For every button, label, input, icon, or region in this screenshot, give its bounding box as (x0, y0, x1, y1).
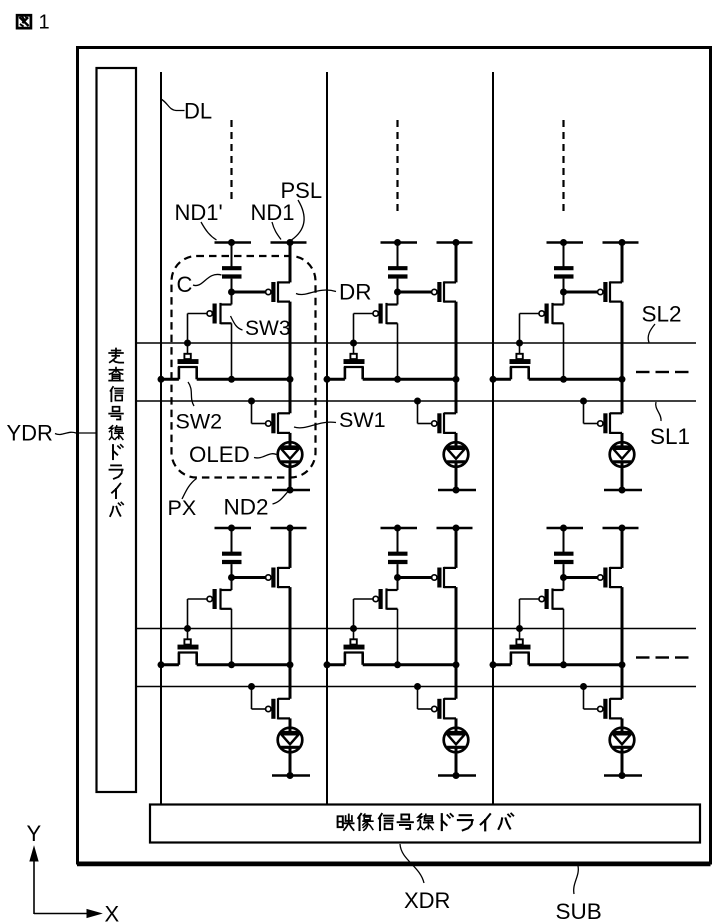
junction on ND1' (pixel r2c1) (228, 525, 235, 532)
wire OLED to ND2 (pixel r1c3) (621, 462, 624, 490)
transistor SW3 (pixel r2c1) (207, 596, 212, 601)
transistor DR (pixel r1c1) (266, 289, 271, 294)
svg-text:PX: PX (168, 496, 197, 520)
wire gate node to SW3 top (pixel r1c2) (397, 292, 399, 305)
transistor SW2 (pixel r2c3) (516, 639, 522, 644)
row continuation dashes right row2 (636, 656, 650, 658)
label SUB (574, 866, 579, 894)
svg-text:DR: DR (339, 280, 372, 305)
junction wire/ND1 column (pixel r2c2) (453, 661, 460, 668)
label ND1' (201, 222, 217, 240)
wire SW1 gate to SL1 (pixel r2c3) (583, 687, 585, 710)
transistor DR (pixel r1c2) (432, 289, 437, 294)
junction on ND1 (pixel r2c1) (287, 525, 294, 532)
junction on ND2 (pixel r1c1) (287, 487, 294, 494)
wire gate node to SW3 top (pixel r2c1) (231, 578, 233, 591)
junction on ND1 (pixel r1c1) (287, 239, 294, 246)
node ND1 terminal bar (pixel r2c2) (437, 527, 473, 530)
label SL1 (656, 402, 661, 421)
svg-text:1: 1 (39, 12, 50, 34)
junction wire/SW3 column (pixel r2c1) (228, 661, 235, 668)
wire ND1' to capacitor (pixel r2c1) (231, 528, 233, 554)
transistor SW2 (pixel r1c1) (184, 354, 190, 359)
pixel boundary PX dashed box (172, 256, 316, 478)
wire SW3 gate to SL2 (pixel r2c2) (354, 598, 374, 600)
junction SW3/SW2 gate on SL2 (pixel r1c1) (184, 340, 191, 347)
wire capacitor to gate node (pixel r1c2) (397, 279, 399, 292)
capacitor C (pixel r2c1) (222, 552, 242, 556)
wire gate node to SW3 top (pixel r2c2) (397, 578, 399, 591)
wire SW3 bottom down (pixel r2c2) (397, 609, 399, 665)
svg-text:X: X (105, 902, 120, 923)
svg-text:Y: Y (27, 821, 42, 846)
wire SW1 to OLED (pixel r2c2) (455, 718, 458, 732)
junction SW3/SW2 gate on SL2 (pixel r2c3) (516, 625, 523, 632)
wire SL2 to SW2 gate (pixel r2c1) (187, 629, 189, 640)
wire gate node to DR gate (pixel r2c2) (398, 576, 432, 579)
transistor SW1 (pixel r1c2) (432, 421, 437, 426)
junction on ND1 (pixel r1c3) (619, 239, 626, 246)
wire SW2 drain to ND1 column (pixel r1c3) (529, 378, 622, 381)
junction wire/SW3 column (pixel r1c2) (394, 376, 401, 383)
wire SL2 to SW2 gate (pixel r1c3) (519, 343, 521, 354)
wire SW3 gate to SL2 (pixel r1c2) (354, 313, 374, 315)
wire SW3 bottom down (pixel r2c1) (231, 609, 233, 665)
wire capacitor to gate node (pixel r1c1) (231, 279, 233, 292)
junction SW1 gate on SL1 (pixel r1c1) (248, 398, 255, 405)
label DR (296, 290, 336, 295)
svg-text:XDR: XDR (404, 888, 450, 913)
wire OLED to ND2 (pixel r1c2) (455, 462, 458, 490)
svg-text:ND2: ND2 (224, 495, 269, 520)
node ND1 terminal bar (pixel r2c3) (603, 527, 639, 530)
svg-text:SUB: SUB (556, 899, 602, 923)
junction on ND2 (pixel r2c1) (287, 772, 294, 779)
label XDR (400, 844, 424, 883)
wire SL2 to SW2 gate (pixel r2c2) (353, 629, 355, 640)
wire SW2 drain to ND1 column (pixel r2c2) (363, 663, 456, 666)
wire SW2 drain to ND1 column (pixel r1c2) (363, 378, 456, 381)
wire ND1 to DR source (pixel r1c2) (455, 243, 458, 283)
transistor SW1 (pixel r2c3) (598, 706, 603, 711)
junction SW1 gate on SL1 (pixel r2c2) (414, 683, 421, 690)
wire SW1 to OLED (pixel r1c3) (621, 433, 624, 447)
junction wire/ND1 column (pixel r2c3) (619, 661, 626, 668)
wire gate node to DR gate (pixel r1c2) (398, 291, 432, 294)
transistor SW2 (pixel r2c2) (350, 639, 356, 644)
wire ND1 to DR source (pixel r2c3) (621, 528, 624, 568)
scan line SL1 row2 (137, 686, 697, 688)
node ND2 terminal bar (pixel r1c1) (272, 489, 310, 492)
capacitor C (pixel r1c1) (222, 266, 242, 270)
junction SW3/SW2 gate on SL2 (pixel r1c2) (350, 340, 357, 347)
wire SW1 gate to SL1 (pixel r1c2) (417, 401, 419, 424)
wire SW3 bottom down (pixel r1c2) (397, 323, 399, 379)
junction gate node (pixel r2c1) (228, 574, 235, 581)
wire DL to SW2 source (pixel r1c2) (327, 378, 345, 381)
wire SW3 gate to SL2 (pixel r2c3) (520, 598, 540, 600)
diode OLED (pixel r1c1) (278, 442, 303, 467)
wire SW1 gate to SL1 (pixel r1c1) (251, 401, 253, 424)
junction on DL (pixel r1c3) (490, 376, 497, 383)
junction on ND2 (pixel r1c3) (619, 487, 626, 494)
transistor SW2 (pixel r1c2) (350, 354, 356, 359)
capacitor C (pixel r1c2) (388, 266, 408, 270)
scan line SL2 row2 (137, 628, 697, 630)
svg-text:SW2: SW2 (176, 410, 223, 434)
transistor SW3 (pixel r2c2) (373, 596, 378, 601)
junction gate node (pixel r1c1) (228, 289, 235, 296)
junction SW1 gate on SL1 (pixel r1c3) (580, 398, 587, 405)
wire OLED to ND2 (pixel r2c1) (289, 747, 292, 775)
label C (193, 274, 222, 285)
wire gate node to DR gate (pixel r2c3) (564, 576, 598, 579)
junction gate node (pixel r2c2) (394, 574, 401, 581)
label SW2 (188, 382, 194, 406)
junction wire/ND1 column (pixel r2c1) (287, 661, 294, 668)
wire gate node to SW3 top (pixel r2c3) (563, 578, 565, 591)
label OLED (254, 454, 277, 458)
svg-text:SL1: SL1 (650, 424, 690, 449)
label PX (182, 479, 197, 500)
substrate outline SUB frame (78, 48, 711, 864)
node ND1 terminal bar (pixel r2c1) (271, 527, 307, 530)
wire SL2 to SW2 gate (pixel r1c2) (353, 343, 355, 354)
wire capacitor to gate node (pixel r2c2) (397, 564, 399, 577)
junction on ND1' (pixel r2c2) (394, 525, 401, 532)
capacitor C (pixel r2c3) (554, 552, 574, 556)
junction on ND1' (pixel r1c1) (228, 239, 235, 246)
wire capacitor to gate node (pixel r2c3) (563, 564, 565, 577)
node ND1' terminal bar (pixel r2c2) (381, 527, 418, 530)
diode OLED (pixel r2c3) (610, 728, 635, 753)
wire DR drain down (pixel r1c3) (621, 302, 624, 414)
transistor SW3 (pixel r1c2) (373, 311, 378, 316)
junction on DL (pixel r1c2) (324, 376, 331, 383)
svg-text:C: C (177, 272, 193, 297)
wire DL to SW2 source (pixel r1c1) (161, 378, 179, 381)
transistor DR (pixel r2c3) (598, 575, 603, 580)
transistor SW1 (pixel r2c2) (432, 706, 437, 711)
wire DL to SW2 source (pixel r1c3) (493, 378, 511, 381)
wire SW1 gate to SL1 (pixel r2c2) (417, 687, 419, 710)
transistor DR (pixel r1c3) (598, 289, 603, 294)
wire ND1' to capacitor (pixel r2c2) (397, 528, 399, 554)
junction SW1 gate on SL1 (pixel r2c1) (248, 683, 255, 690)
data line DL column 1 (160, 72, 162, 805)
junction SW1 gate on SL1 (pixel r2c3) (580, 683, 587, 690)
node ND1 terminal bar (pixel r1c3) (603, 241, 639, 244)
junction on ND2 (pixel r1c2) (453, 487, 460, 494)
wire gate node to DR gate (pixel r1c1) (232, 291, 266, 294)
junction gate node (pixel r1c3) (560, 289, 567, 296)
junction on ND2 (pixel r2c3) (619, 772, 626, 779)
wire DR drain down (pixel r1c1) (289, 302, 292, 414)
junction wire/ND1 column (pixel r1c1) (287, 376, 294, 383)
junction on ND1 (pixel r2c2) (453, 525, 460, 532)
node ND1' terminal bar (pixel r1c2) (381, 241, 418, 244)
svg-text:ND1: ND1 (251, 200, 295, 225)
wire DR drain down (pixel r2c2) (455, 587, 458, 699)
transistor SW1 (pixel r1c1) (266, 421, 271, 426)
junction gate node (pixel r2c3) (560, 574, 567, 581)
svg-text:ND1': ND1' (175, 200, 223, 225)
junction SW1 gate on SL1 (pixel r1c2) (414, 398, 421, 405)
node ND2 terminal bar (pixel r2c2) (438, 774, 476, 777)
wire ND1 to DR source (pixel r2c2) (455, 528, 458, 568)
wire SL2 to SW2 gate (pixel r2c3) (519, 629, 521, 640)
label DL (161, 99, 185, 111)
wire DR drain down (pixel r1c2) (455, 302, 458, 414)
capacitor C (pixel r2c2) (388, 552, 408, 556)
scan driver block YDR box (97, 68, 137, 792)
transistor SW2 (pixel r2c1) (184, 639, 190, 644)
node ND2 terminal bar (pixel r2c1) (272, 774, 310, 777)
wire ND1' to capacitor (pixel r2c3) (563, 528, 565, 554)
power line PSL dashed continuation (pixel r1c3) (562, 120, 564, 211)
label YDR (55, 432, 96, 434)
wire OLED to ND2 (pixel r1c1) (289, 462, 292, 490)
diode OLED (pixel r1c2) (444, 442, 469, 467)
wire OLED to ND2 (pixel r2c3) (621, 747, 624, 775)
node ND2 terminal bar (pixel r2c3) (604, 774, 642, 777)
junction SW3/SW2 gate on SL2 (pixel r2c2) (350, 625, 357, 632)
transistor SW1 (pixel r1c3) (598, 421, 603, 426)
wire SW1 gate to SL1 (pixel r1c3) (583, 401, 585, 424)
node ND1' terminal bar (pixel r2c3) (547, 527, 584, 530)
junction wire/SW3 column (pixel r2c3) (560, 661, 567, 668)
wire SW3 bottom down (pixel r1c1) (231, 323, 233, 379)
scan line SL2 row1 (137, 342, 697, 344)
junction wire/SW3 column (pixel r2c2) (394, 661, 401, 668)
diode OLED (pixel r2c1) (278, 728, 303, 753)
svg-text:DL: DL (184, 99, 212, 124)
junction on ND2 (pixel r2c2) (453, 772, 460, 779)
wire ND1 to DR source (pixel r1c1) (289, 243, 292, 283)
junction SW3/SW2 gate on SL2 (pixel r1c3) (516, 340, 523, 347)
junction on ND1 (pixel r2c3) (619, 525, 626, 532)
wire SW1 gate to SL1 (pixel r2c1) (251, 687, 253, 710)
wire SW1 to OLED (pixel r2c3) (621, 718, 624, 732)
wire gate node to DR gate (pixel r1c3) (564, 291, 598, 294)
wire SW1 to OLED (pixel r1c1) (289, 433, 292, 447)
wire ND1 to DR source (pixel r1c3) (621, 243, 624, 283)
junction on ND1 (pixel r1c2) (453, 239, 460, 246)
junction gate node (pixel r1c2) (394, 289, 401, 296)
wire SW3 gate to SL2 (pixel r1c3) (520, 313, 540, 315)
wire capacitor to gate node (pixel r2c1) (231, 564, 233, 577)
axis X arrow (34, 913, 88, 915)
wire ND1' to capacitor (pixel r1c3) (563, 243, 565, 269)
label ND2 (273, 492, 289, 505)
junction on ND1' (pixel r1c2) (394, 239, 401, 246)
wire SW3 bottom down (pixel r1c3) (563, 323, 565, 379)
wire DL to SW2 source (pixel r2c1) (161, 663, 179, 666)
label SW1 (294, 422, 336, 428)
node ND1' terminal bar (pixel r1c3) (547, 241, 584, 244)
junction wire/SW3 column (pixel r1c3) (560, 376, 567, 383)
diode OLED (pixel r2c2) (444, 728, 469, 753)
wire ND1 to DR source (pixel r2c1) (289, 528, 292, 568)
node ND1 terminal bar (pixel r1c2) (437, 241, 473, 244)
wire gate node to DR gate (pixel r2c1) (232, 576, 266, 579)
svg-text:SL2: SL2 (642, 302, 682, 327)
axis Y arrow (33, 852, 35, 914)
transistor DR (pixel r2c1) (266, 575, 271, 580)
svg-text:SW1: SW1 (339, 408, 386, 432)
label ND1 (272, 222, 281, 240)
junction wire/SW3 column (pixel r1c1) (228, 376, 235, 383)
data line DL column 3 (492, 72, 494, 805)
junction on ND1' (pixel r1c3) (560, 239, 567, 246)
wire gate node to SW3 top (pixel r1c1) (231, 292, 233, 305)
wire SW2 drain to ND1 column (pixel r2c1) (197, 663, 290, 666)
wire SW2 drain to ND1 column (pixel r2c3) (529, 663, 622, 666)
diode OLED (pixel r1c3) (610, 442, 635, 467)
video driver label 映像信号線ドライバ (338, 815, 354, 831)
data line DL column 2 (326, 72, 328, 805)
wire SW3 gate to SL2 (pixel r2c1) (188, 598, 208, 600)
wire gate node to SW3 top (pixel r1c3) (563, 292, 565, 305)
junction wire/ND1 column (pixel r1c3) (619, 376, 626, 383)
junction on DL (pixel r2c1) (158, 661, 165, 668)
svg-text:OLED: OLED (189, 442, 250, 467)
node ND1' terminal bar (pixel r1c1) (215, 241, 252, 244)
wire DL to SW2 source (pixel r2c2) (327, 663, 345, 666)
svg-text:YDR: YDR (7, 421, 53, 446)
junction wire/ND1 column (pixel r1c2) (453, 376, 460, 383)
row continuation dashes right row1 (636, 371, 650, 373)
scan driver label 走査信号線ドライバ (109, 349, 123, 363)
node ND2 terminal bar (pixel r1c3) (604, 489, 642, 492)
node ND1 terminal bar (pixel r1c1) (271, 241, 307, 244)
wire SW2 drain to ND1 column (pixel r1c1) (197, 378, 290, 381)
transistor SW3 (pixel r2c3) (539, 596, 544, 601)
node ND2 terminal bar (pixel r1c2) (438, 489, 476, 492)
wire SL2 to SW2 gate (pixel r1c1) (187, 343, 189, 354)
power line PSL dashed continuation (pixel r1c2) (396, 120, 398, 211)
label PSL (292, 200, 305, 240)
junction SW3/SW2 gate on SL2 (pixel r2c1) (184, 625, 191, 632)
label SL2 (648, 324, 655, 343)
wire ND1' to capacitor (pixel r1c2) (397, 243, 399, 269)
wire SW3 gate to SL2 (pixel r1c1) (188, 313, 208, 315)
label SW3 (231, 316, 243, 330)
video driver block XDR box (150, 805, 700, 843)
figure number label 図1 (17, 15, 31, 28)
wire DL to SW2 source (pixel r2c3) (493, 663, 511, 666)
capacitor C (pixel r1c3) (554, 266, 574, 270)
wire DR drain down (pixel r2c3) (621, 587, 624, 699)
junction on DL (pixel r1c1) (158, 376, 165, 383)
transistor DR (pixel r2c2) (432, 575, 437, 580)
junction on DL (pixel r2c2) (324, 661, 331, 668)
wire SW1 to OLED (pixel r1c2) (455, 433, 458, 447)
transistor SW2 (pixel r1c3) (516, 354, 522, 359)
wire SW3 bottom down (pixel r2c3) (563, 609, 565, 665)
wire SW1 to OLED (pixel r2c1) (289, 718, 292, 732)
scan line SL1 row1 (137, 400, 697, 402)
power line PSL dashed continuation (pixel r1c1) (230, 120, 232, 202)
node ND1' terminal bar (pixel r2c1) (215, 527, 252, 530)
svg-text:SW3: SW3 (245, 317, 291, 340)
transistor SW1 (pixel r2c1) (266, 706, 271, 711)
wire ND1' to capacitor (pixel r1c1) (231, 243, 233, 269)
junction on DL (pixel r2c3) (490, 661, 497, 668)
transistor SW3 (pixel r1c3) (539, 311, 544, 316)
wire DR drain down (pixel r2c1) (289, 587, 292, 699)
transistor SW3 (pixel r1c1) (207, 311, 212, 316)
wire OLED to ND2 (pixel r2c2) (455, 747, 458, 775)
junction on ND1' (pixel r2c3) (560, 525, 567, 532)
wire capacitor to gate node (pixel r1c3) (563, 279, 565, 292)
